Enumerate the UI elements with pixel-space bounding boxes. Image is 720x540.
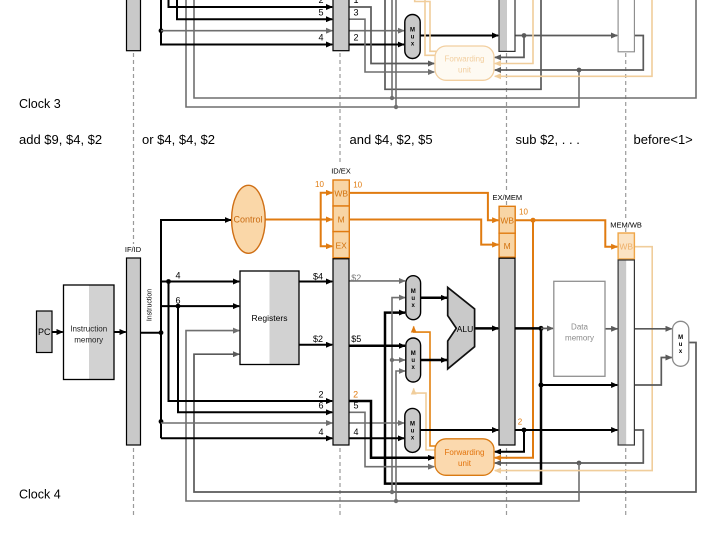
- svg-text:unit: unit: [458, 66, 472, 75]
- svg-text:$2: $2: [351, 273, 361, 283]
- svg-text:$4: $4: [313, 272, 323, 282]
- svg-text:u: u: [679, 342, 683, 348]
- svg-text:IF/ID: IF/ID: [125, 245, 142, 254]
- svg-text:M: M: [338, 214, 345, 224]
- svg-text:PC: PC: [38, 327, 51, 337]
- svg-text:Forwarding: Forwarding: [444, 55, 484, 64]
- svg-text:5: 5: [318, 7, 323, 17]
- svg-text:EX/MEM: EX/MEM: [493, 193, 523, 202]
- svg-text:M: M: [410, 28, 415, 34]
- svg-text:10: 10: [519, 208, 528, 217]
- svg-text:before<1>: before<1>: [634, 132, 693, 147]
- svg-text:5: 5: [353, 401, 358, 411]
- svg-text:Clock 4: Clock 4: [19, 488, 61, 502]
- svg-text:3: 3: [353, 7, 358, 17]
- svg-text:Instruction: Instruction: [147, 289, 154, 321]
- svg-text:4: 4: [318, 32, 323, 42]
- svg-text:$5: $5: [351, 334, 361, 344]
- svg-text:M: M: [678, 335, 683, 341]
- svg-text:and $4, $2, $5: and $4, $2, $5: [350, 132, 433, 147]
- svg-text:6: 6: [175, 295, 180, 305]
- svg-text:u: u: [411, 296, 415, 302]
- svg-text:2: 2: [318, 0, 323, 5]
- svg-text:WB: WB: [334, 189, 348, 199]
- svg-text:Clock 3: Clock 3: [19, 97, 61, 111]
- svg-text:u: u: [411, 428, 415, 434]
- svg-text:4: 4: [318, 427, 323, 437]
- svg-text:memory: memory: [565, 334, 594, 343]
- svg-text:2: 2: [318, 390, 323, 400]
- svg-text:M: M: [410, 421, 415, 427]
- svg-text:M: M: [411, 351, 416, 357]
- svg-text:Control: Control: [233, 215, 262, 225]
- svg-text:1: 1: [353, 0, 358, 5]
- svg-text:4: 4: [353, 427, 358, 437]
- svg-text:WB: WB: [619, 242, 633, 252]
- svg-text:memory: memory: [74, 336, 103, 345]
- svg-text:or $4, $4, $2: or $4, $4, $2: [142, 132, 215, 147]
- svg-text:M: M: [411, 289, 416, 295]
- svg-text:EX: EX: [336, 241, 348, 251]
- svg-text:unit: unit: [458, 459, 472, 468]
- svg-text:ID/EX: ID/EX: [331, 167, 351, 176]
- svg-text:Forwarding: Forwarding: [444, 448, 484, 457]
- svg-text:Registers: Registers: [252, 313, 288, 323]
- svg-text:2: 2: [353, 32, 358, 42]
- svg-text:Data: Data: [571, 323, 588, 332]
- svg-text:2: 2: [518, 417, 523, 426]
- svg-text:u: u: [411, 35, 415, 41]
- svg-text:10: 10: [315, 180, 324, 189]
- svg-text:sub $2, . . .: sub $2, . . .: [516, 132, 580, 147]
- svg-text:add $9, $4, $2: add $9, $4, $2: [19, 132, 102, 147]
- svg-text:M: M: [504, 241, 511, 251]
- svg-text:10: 10: [353, 181, 362, 190]
- svg-text:MEM/WB: MEM/WB: [610, 220, 642, 229]
- svg-text:4: 4: [175, 271, 180, 281]
- svg-text:WB: WB: [500, 216, 514, 226]
- svg-text:6: 6: [318, 401, 323, 411]
- svg-text:2: 2: [353, 390, 358, 400]
- svg-text:u: u: [411, 358, 415, 364]
- svg-text:Instruction: Instruction: [70, 325, 107, 334]
- svg-text:$2: $2: [313, 334, 323, 344]
- svg-text:ALU: ALU: [457, 324, 474, 334]
